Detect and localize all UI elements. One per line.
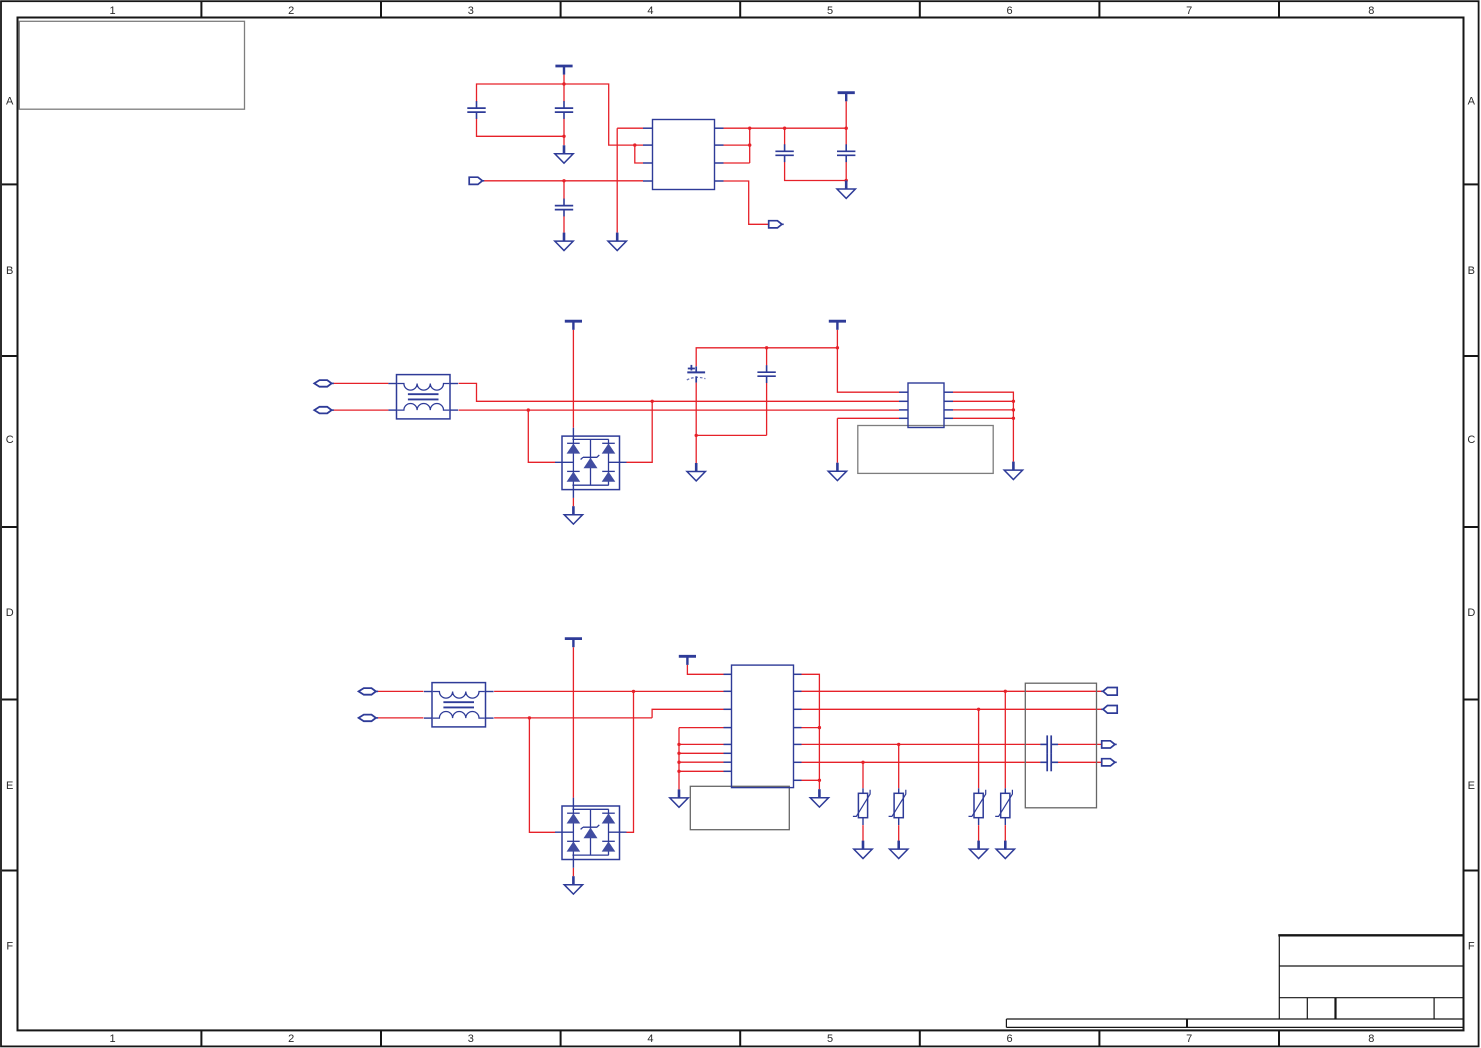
svg-text:C: C	[1467, 434, 1475, 446]
svg-text:E: E	[6, 780, 13, 792]
svg-text:7: 7	[1186, 1033, 1192, 1045]
svg-text:2: 2	[288, 5, 294, 17]
svg-text:5: 5	[827, 5, 833, 17]
svg-text:6: 6	[1007, 1033, 1013, 1045]
svg-text:6: 6	[1007, 5, 1013, 17]
svg-text:8: 8	[1368, 5, 1374, 17]
svg-text:F: F	[6, 941, 13, 953]
svg-text:B: B	[1468, 265, 1475, 277]
svg-text:4: 4	[647, 1033, 653, 1045]
svg-text:2: 2	[288, 1033, 294, 1045]
svg-text:A: A	[6, 95, 14, 107]
svg-text:3: 3	[468, 1033, 474, 1045]
svg-text:E: E	[1468, 780, 1475, 792]
svg-text:5: 5	[827, 1033, 833, 1045]
svg-text:D: D	[6, 607, 14, 619]
svg-text:3: 3	[468, 5, 474, 17]
svg-text:8: 8	[1368, 1033, 1374, 1045]
svg-text:B: B	[6, 265, 13, 277]
svg-text:1: 1	[109, 1033, 115, 1045]
svg-text:1: 1	[109, 5, 115, 17]
svg-text:C: C	[6, 434, 14, 446]
svg-text:7: 7	[1186, 5, 1192, 17]
svg-text:F: F	[1468, 941, 1475, 953]
svg-text:D: D	[1467, 607, 1475, 619]
svg-text:4: 4	[647, 5, 653, 17]
svg-text:A: A	[1468, 95, 1476, 107]
